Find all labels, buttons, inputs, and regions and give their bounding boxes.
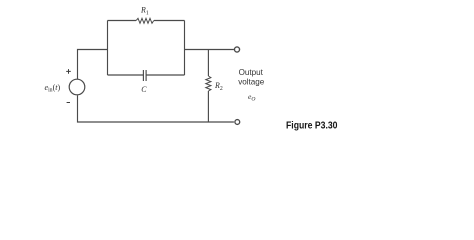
output terminal top (open circle) — [234, 47, 239, 52]
resistor R1 — [136, 18, 154, 23]
wire: left junction riser of parallel combination (node A) — [107, 21, 109, 76]
svg-text:ein(t): ein(t) — [45, 83, 61, 94]
wire: bottom branch right segment — [146, 74, 184, 76]
svg-text:R1: R1 — [140, 6, 149, 17]
capacitor C plates — [143, 70, 146, 81]
wire: top branch right segment — [154, 20, 185, 22]
svg-text:Output: Output — [239, 68, 264, 77]
svg-text:eO: eO — [248, 92, 255, 103]
svg-text:voltage: voltage — [238, 77, 265, 86]
wire: top branch left segment — [108, 20, 137, 22]
svg-text:Figure P3.30: Figure P3.30 — [286, 121, 338, 132]
wire: bottom branch left segment — [108, 74, 144, 76]
wire: R2 top lead — [207, 50, 209, 77]
wire: R2 bottom lead — [207, 91, 209, 122]
source plus polarity mark — [66, 69, 71, 74]
wire: bottom rail from source negative lead to output terminal — [78, 95, 234, 122]
wire: node B to R2 junction and output terminal top rail — [185, 49, 234, 51]
wire: right junction riser of parallel combination (node B) — [184, 21, 186, 76]
resistor R2 — [206, 76, 211, 91]
source minus polarity mark — [67, 102, 70, 104]
output terminal bottom (open circle) — [235, 120, 240, 125]
svg-text:C: C — [141, 85, 147, 94]
voltage source ein(t) — [69, 79, 85, 95]
wire: source positive lead up and right to node A — [78, 50, 108, 80]
svg-text:R2: R2 — [214, 81, 223, 92]
